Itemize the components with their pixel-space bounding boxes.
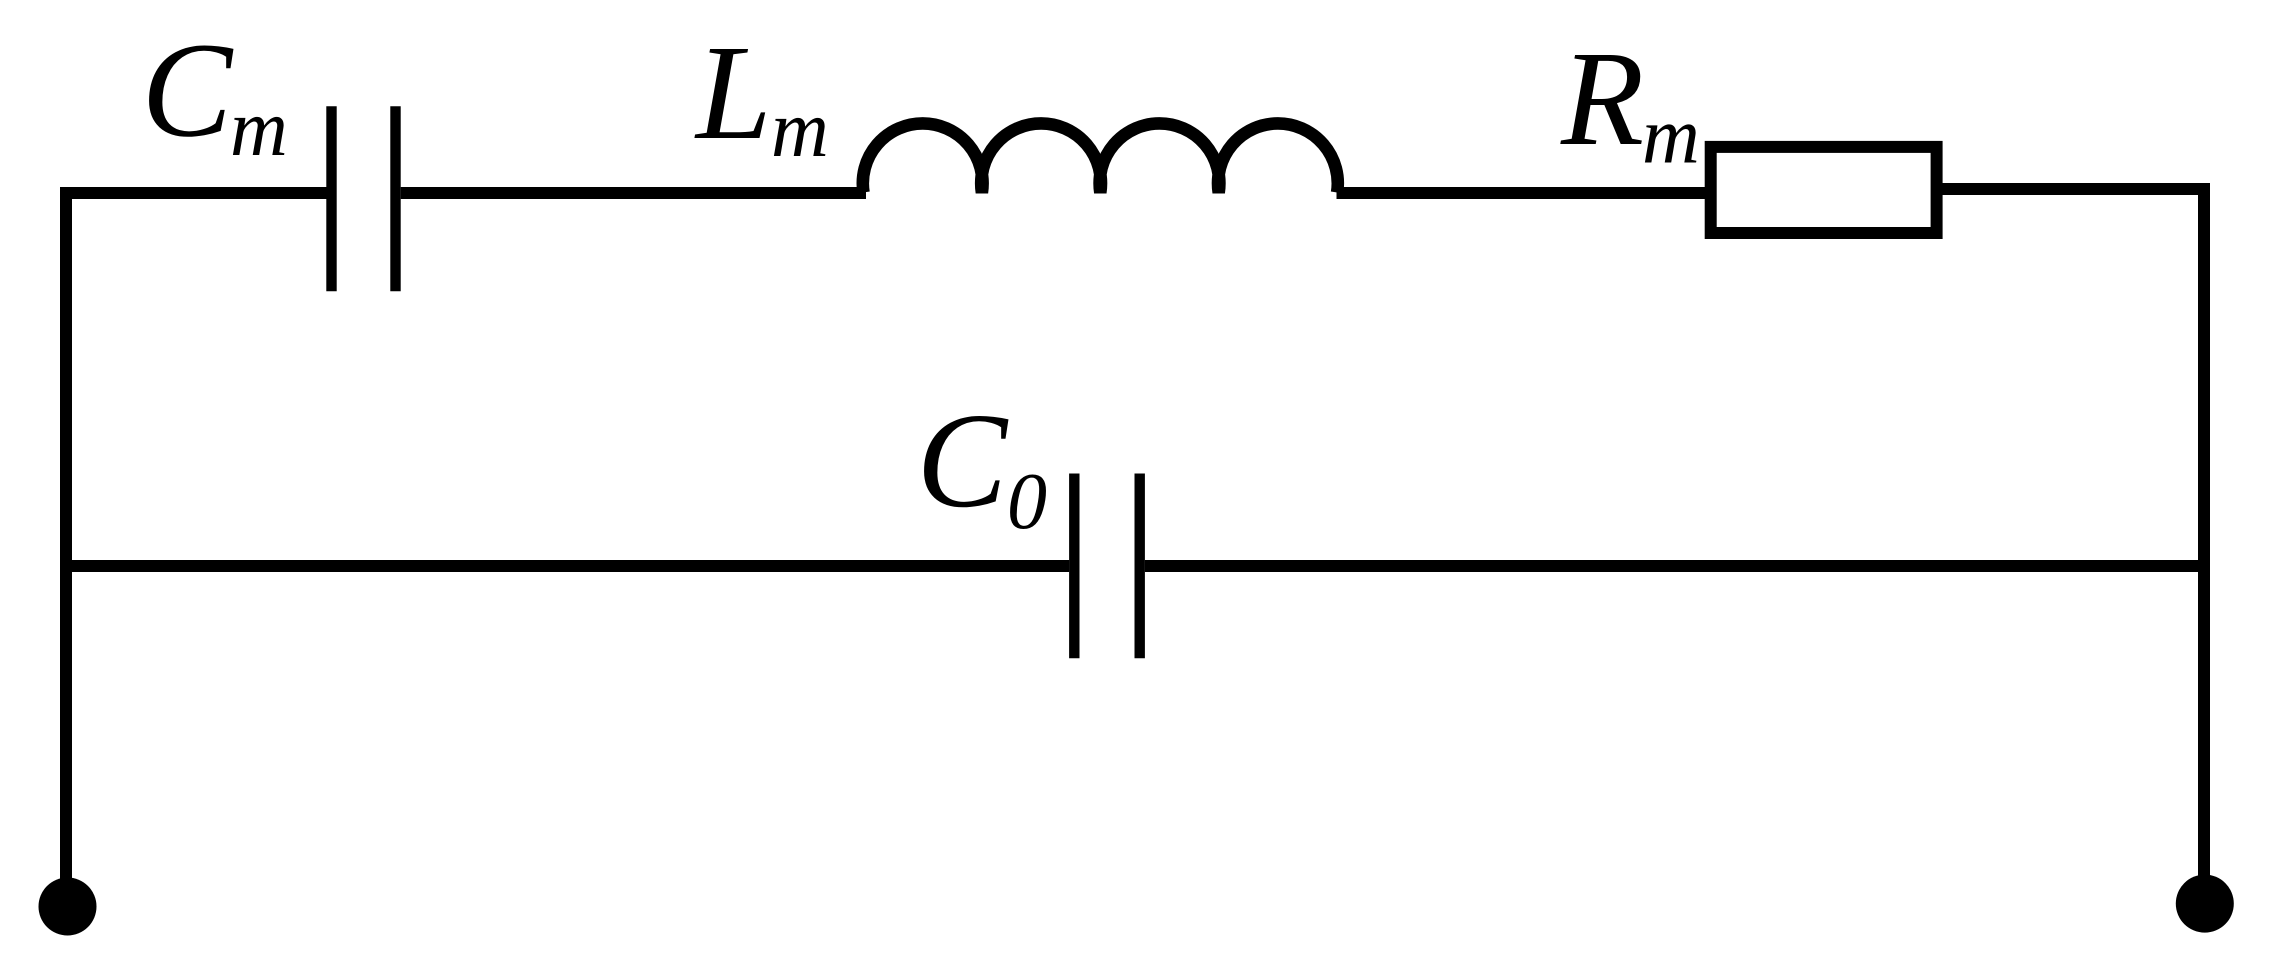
svg-text:R: R <box>1560 24 1644 174</box>
wire: left vertical (top rail to left terminal) <box>60 187 72 888</box>
svg-text:m: m <box>771 86 829 174</box>
resistor R_m body <box>1711 147 1937 233</box>
wire: top rail, left corner to C_m left plate <box>60 187 327 199</box>
terminal node left (dot) <box>39 878 97 936</box>
wire: middle rail, left vertical to C_0 left plate <box>60 560 1069 572</box>
label L_m <box>694 18 829 174</box>
capacitor C_m plates <box>332 106 396 291</box>
svg-text:L: L <box>694 18 772 168</box>
wire: resistor to top-right corner <box>1942 183 2210 195</box>
svg-text:m: m <box>1642 93 1700 181</box>
svg-text:C: C <box>917 386 1009 536</box>
svg-text:0: 0 <box>1007 458 1047 546</box>
wire: C_m right plate to inductor <box>401 187 866 199</box>
wire: middle rail, C_0 right plate to right vertical <box>1145 560 2210 572</box>
label C_m <box>142 16 288 174</box>
label R_m <box>1560 24 1700 181</box>
label C_0 <box>917 386 1048 546</box>
inductor L_m coil (4 arcs) <box>863 123 1338 192</box>
svg-text:m: m <box>230 85 288 173</box>
wire: right vertical (top rail to right terminal) <box>2198 183 2210 880</box>
capacitor C_0 plates <box>1074 474 1139 659</box>
wire: inductor to resistor <box>1337 187 1707 199</box>
svg-text:C: C <box>142 16 234 166</box>
terminal node right (dot) <box>2176 875 2234 933</box>
